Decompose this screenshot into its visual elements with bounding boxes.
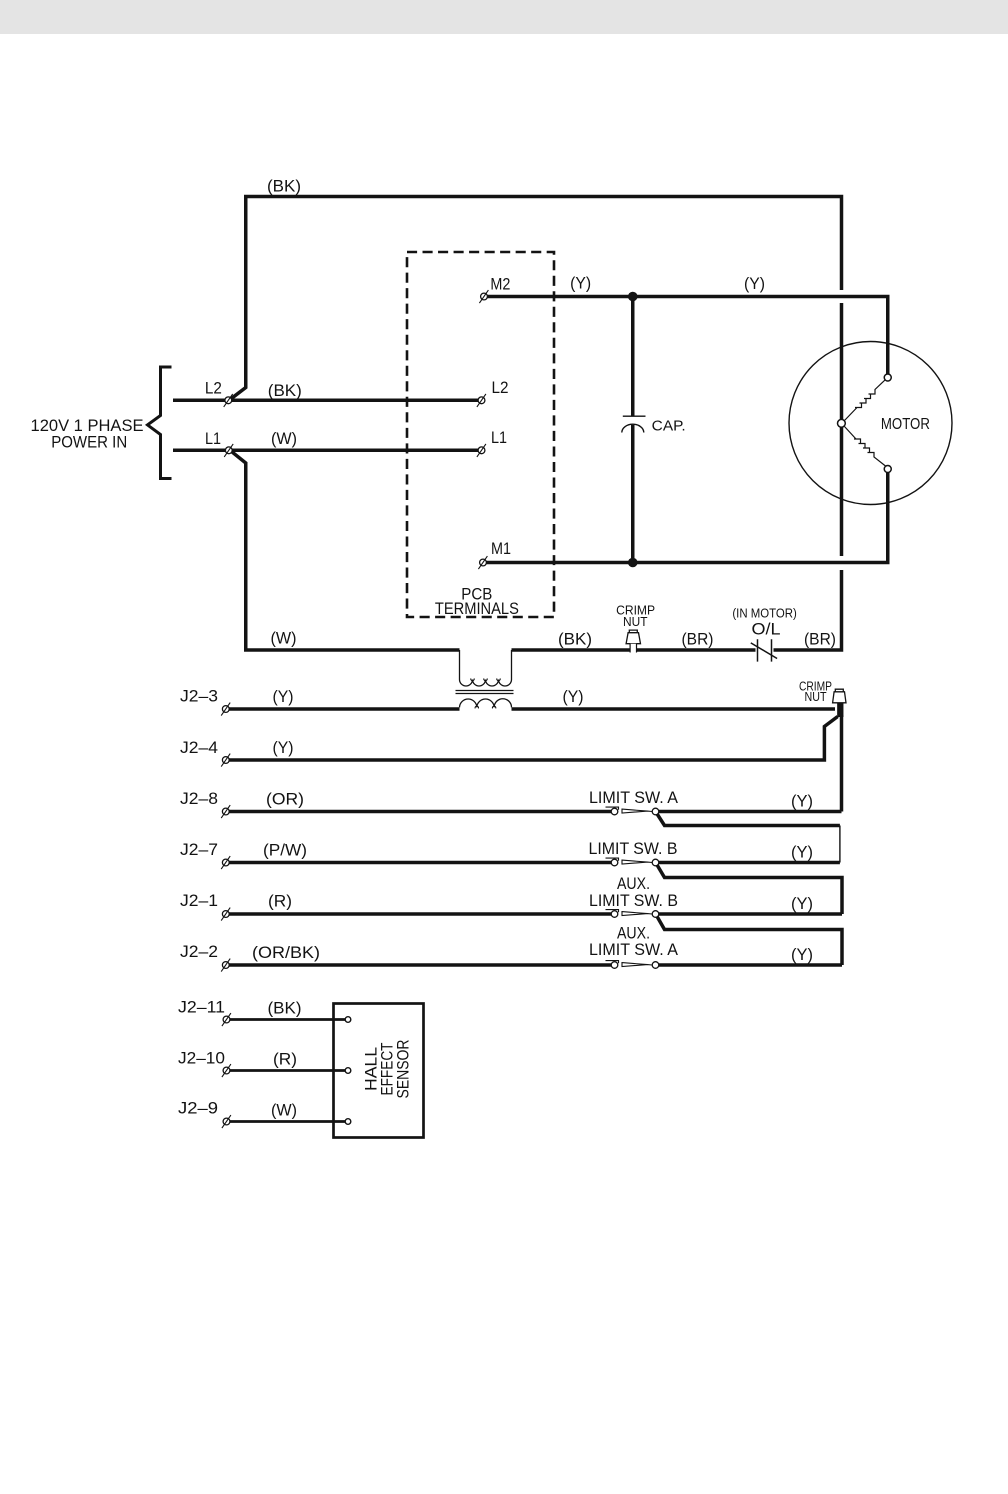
terminal J2-7 (screw circle with slash) xyxy=(221,856,230,869)
svg-text:(P/W): (P/W) xyxy=(263,841,307,860)
hall sensor pin circle J2-9 xyxy=(345,1119,351,1125)
limit switch A (aux) right contact xyxy=(652,962,659,969)
svg-text:(Y): (Y) xyxy=(273,738,294,757)
transformer core lines xyxy=(456,691,514,694)
svg-text:(Y): (Y) xyxy=(273,687,294,706)
svg-text:J2–9: J2–9 xyxy=(178,1099,218,1118)
wire: J2-3 row right of transformer to crimp nut xyxy=(512,707,836,711)
wire: SW B branch diagonal down to AUX B row xyxy=(657,864,843,914)
power-in bracket xyxy=(148,367,172,479)
motor top lead circle xyxy=(884,374,891,381)
crimp nut (J2-3/J2-4 junction) xyxy=(833,689,846,703)
wire: L1 diagonal, left vertical down, (W) bottom run to transformer xyxy=(230,450,460,650)
terminal J2-2 (screw circle with slash) xyxy=(221,959,230,972)
crimp nut (O/L row) xyxy=(626,630,640,652)
svg-text:L2: L2 xyxy=(205,379,222,398)
svg-text:(W): (W) xyxy=(271,429,297,448)
svg-text:(BK): (BK) xyxy=(268,381,302,400)
svg-text:TERMINALS: TERMINALS xyxy=(435,600,519,618)
svg-text:L2: L2 xyxy=(492,378,509,397)
wire: crimped bundle stub below crimp nut xyxy=(837,703,843,717)
limit switch A left contact xyxy=(611,808,618,815)
wire: J2-7 row after switch xyxy=(656,861,840,865)
svg-text:(W): (W) xyxy=(271,1101,297,1120)
wire: thin link from SW A branch to SW B row xyxy=(839,826,841,863)
svg-text:(BK): (BK) xyxy=(268,999,302,1018)
terminal J2-10 (screw circle with slash) xyxy=(222,1064,231,1077)
PCB terminals dashed box xyxy=(407,252,554,617)
svg-text:(IN MOTOR): (IN MOTOR) xyxy=(732,606,797,621)
svg-text:POWER IN: POWER IN xyxy=(51,432,127,451)
svg-text:NUT: NUT xyxy=(805,690,827,704)
svg-text:(R): (R) xyxy=(273,1050,297,1069)
limit switch A blade xyxy=(606,807,619,810)
junction node M1/capacitor xyxy=(628,558,638,568)
svg-text:(OR/BK): (OR/BK) xyxy=(252,943,320,962)
svg-text:LIMIT SW. A: LIMIT SW. A xyxy=(589,788,679,807)
wire: J2-3 row left of transformer xyxy=(226,707,460,711)
svg-text:(BR): (BR) xyxy=(804,630,836,649)
terminal M1 (PCB) (screw circle with slash) xyxy=(478,556,487,569)
wire: L2 row xyxy=(173,399,482,403)
terminal J2-1 (screw circle with slash) xyxy=(221,908,230,921)
svg-text:LIMIT SW. B: LIMIT SW. B xyxy=(589,891,678,910)
svg-text:J2–1: J2–1 xyxy=(180,891,218,910)
motor common node circle xyxy=(838,419,846,427)
limit switch B right contact xyxy=(652,859,659,866)
wire: AUX B branch diagonal down to AUX A row xyxy=(657,916,843,966)
svg-text:M1: M1 xyxy=(491,539,511,558)
wire: J2-2 row after switch xyxy=(656,963,843,967)
limit switch B left contact xyxy=(611,859,618,866)
wire: capacitor branch upper xyxy=(631,297,635,417)
svg-text:M2: M2 xyxy=(490,275,510,294)
wire: J2-1 row to aux limit switch B xyxy=(226,912,615,916)
wire: J2-2 row to aux limit switch A xyxy=(226,963,615,967)
hall sensor pin circle J2-10 xyxy=(345,1068,351,1074)
terminal M2 (PCB) (screw circle with slash) xyxy=(479,290,488,303)
terminal J2-11 (screw circle with slash) xyxy=(222,1013,231,1026)
svg-text:(Y): (Y) xyxy=(791,945,813,964)
svg-text:(Y): (Y) xyxy=(570,274,591,293)
capacitor CAP. bottom curved plate xyxy=(622,424,644,432)
junction node M2/capacitor xyxy=(628,292,638,302)
hall effect sensor box xyxy=(334,1004,424,1138)
limit switch B blade xyxy=(606,858,619,861)
overload O/L contact bars xyxy=(758,639,772,661)
aux limit switch B blade xyxy=(606,910,619,913)
svg-text:(Y): (Y) xyxy=(744,274,765,293)
svg-text:LIMIT SW. A: LIMIT SW. A xyxy=(589,940,679,959)
svg-text:L1: L1 xyxy=(205,429,221,448)
limit switch B (aux) left contact xyxy=(611,911,618,918)
wire: L2 terminal diagonal up-left vertical, top (BK) run, right vertical to M2 crossover xyxy=(229,197,842,401)
svg-text:CAP.: CAP. xyxy=(652,418,686,435)
svg-text:(Y): (Y) xyxy=(791,792,813,811)
wire: L1 row xyxy=(173,449,482,453)
svg-text:(R): (R) xyxy=(268,892,292,911)
svg-text:(OR): (OR) xyxy=(266,790,304,809)
svg-text:L1: L1 xyxy=(491,428,507,447)
terminal J2-3 (screw circle with slash) xyxy=(221,703,230,716)
wire: right vertical between M2 and M1 crossovers (through motor) xyxy=(840,303,844,556)
terminal J2-4 (screw circle with slash) xyxy=(221,754,230,767)
svg-text:O/L: O/L xyxy=(752,621,781,639)
motor bottom lead circle xyxy=(884,466,891,473)
terminal L2 (power in) (screw circle with slash) xyxy=(224,394,233,407)
terminal L1 (PCB) (screw circle with slash) xyxy=(477,444,486,457)
wire: capacitor branch lower xyxy=(631,425,635,563)
svg-text:J2–2: J2–2 xyxy=(180,942,218,961)
wire: M2 row right to motor top lead xyxy=(484,297,888,378)
transformer secondary coil curls xyxy=(475,706,496,708)
transformer primary coil curls xyxy=(471,678,500,680)
wire: J2-1 row after switch xyxy=(656,912,843,916)
terminal L1 (power in) (screw circle with slash) xyxy=(224,444,233,457)
svg-text:J2–7: J2–7 xyxy=(180,840,218,859)
svg-text:(W): (W) xyxy=(271,629,297,648)
top gray band xyxy=(0,0,1008,34)
motor M outline circle xyxy=(789,342,952,505)
svg-text:NUT: NUT xyxy=(623,615,648,629)
overload O/L slash xyxy=(751,643,777,659)
wire: J2-8 row to limit switch A xyxy=(226,810,615,814)
svg-text:(BR): (BR) xyxy=(682,630,714,649)
aux limit switch A blade xyxy=(606,961,619,964)
wire: M1 row right to motor bottom lead xyxy=(483,469,888,563)
transformer secondary coil (3 loops) xyxy=(460,699,512,708)
svg-text:J2–11: J2–11 xyxy=(178,998,225,1017)
limit switch A (aux) left contact xyxy=(611,962,618,969)
svg-text:(Y): (Y) xyxy=(563,687,584,706)
wire: J2-11 row xyxy=(227,1018,348,1021)
hall sensor pin circle J2-11 xyxy=(345,1017,351,1023)
capacitor CAP. top plate xyxy=(623,415,646,417)
wire: J2-10 row xyxy=(227,1069,348,1072)
svg-text:MOTOR: MOTOR xyxy=(881,416,930,433)
transformer primary coil (4 loops) xyxy=(460,680,512,687)
wire: SW A branch diagonal down xyxy=(657,813,840,826)
motor winding upper (staircase coil) xyxy=(845,380,886,421)
svg-text:J2–4: J2–4 xyxy=(180,738,218,757)
transformer primary lead-in verticals xyxy=(460,650,512,680)
motor winding lower (staircase coil) xyxy=(845,427,886,467)
svg-text:J2–10: J2–10 xyxy=(178,1049,225,1068)
terminal J2-8 (screw circle with slash) xyxy=(221,805,230,818)
svg-text:LIMIT SW. B: LIMIT SW. B xyxy=(589,839,678,858)
svg-text:SENSOR: SENSOR xyxy=(394,1040,413,1099)
svg-text:(Y): (Y) xyxy=(791,843,813,862)
wire: J2-4 row, jog up to crimp nut xyxy=(226,717,838,761)
svg-text:J2–3: J2–3 xyxy=(180,687,218,706)
wire: right vertical below M1 down to O/L row corner, row left to O/L gap xyxy=(774,570,842,650)
wire: O/L row from gap left to transformer primary xyxy=(512,648,756,652)
terminal L2 (PCB) (screw circle with slash) xyxy=(477,394,486,407)
wire: vertical from crimp nut down to SW A row xyxy=(840,715,844,812)
wire: J2-8 row after switch to right vertical xyxy=(656,810,842,814)
svg-text:(BK): (BK) xyxy=(267,177,301,196)
terminal J2-9 (screw circle with slash) xyxy=(222,1115,231,1128)
svg-text:(BK): (BK) xyxy=(558,630,592,649)
svg-text:J2–8: J2–8 xyxy=(180,789,218,808)
wire: J2-9 row xyxy=(227,1120,348,1123)
limit switch B (aux) right contact xyxy=(652,911,659,918)
svg-text:(Y): (Y) xyxy=(791,894,813,913)
limit switch A right contact xyxy=(652,808,659,815)
wire: J2-7 row to limit switch B xyxy=(226,861,615,865)
